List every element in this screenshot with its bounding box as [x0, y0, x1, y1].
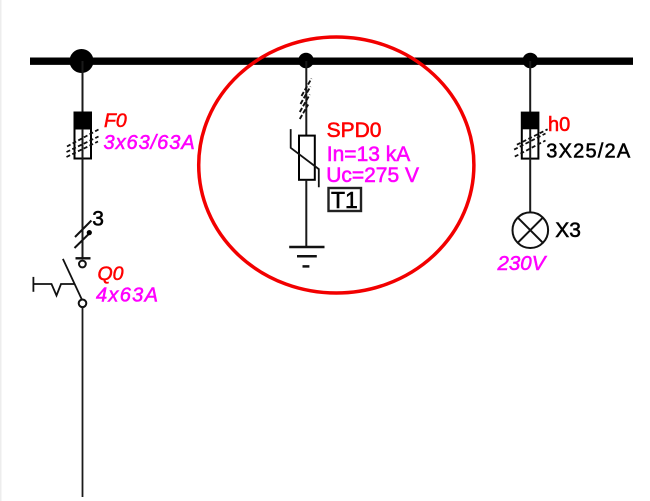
svg-text:Uc=275 V: Uc=275 V: [326, 164, 419, 187]
switch Q0 fixed contact bar: [76, 257, 91, 259]
node right junction: [523, 53, 539, 69]
disconnect slash lower: [75, 233, 90, 248]
ground bar 3: [303, 265, 310, 268]
busbar: [30, 58, 633, 65]
ground bar 1: [289, 246, 324, 249]
svg-text:F0: F0: [104, 110, 127, 132]
svg-text:3X25/2A: 3X25/2A: [546, 141, 631, 163]
svg-text:3x63/63A: 3x63/63A: [104, 132, 196, 154]
T1 frame box: [329, 188, 362, 211]
node left junction: [70, 49, 94, 73]
svg-text:h0: h0: [548, 114, 570, 136]
lamp X3: [513, 212, 549, 248]
disconnect dot: [87, 230, 92, 235]
fuse F0 hatch marks: [67, 130, 99, 158]
disconnect slash upper: [75, 221, 91, 238]
svg-text:X3: X3: [555, 219, 581, 242]
switch Q0 upper pivot circle: [79, 261, 86, 268]
highlight ellipse: [199, 37, 474, 293]
fuse h0 hatch marks: [514, 129, 548, 156]
wire Q0 to feeder bottom: [82, 307, 84, 497]
svg-text:SPD0: SPD0: [327, 119, 382, 142]
svg-text:3: 3: [92, 207, 104, 230]
fuse F0 body: [75, 113, 92, 159]
switch Q0 drive handle: [33, 277, 74, 296]
wire fuse h0 to lamp X3: [529, 159, 531, 213]
SPD0 hatch marks: [300, 79, 312, 120]
wire fuse F0 to disconnect: [82, 159, 84, 259]
left window edge: [0, 0, 2, 501]
wire SPD0 to ground: [305, 180, 307, 247]
switch Q0 lower contact circle: [79, 300, 87, 308]
svg-text:4x63A: 4x63A: [96, 284, 159, 306]
wire bus to SPD0: [305, 61, 307, 136]
switch Q0 blade: [63, 259, 82, 300]
svg-text:230V: 230V: [497, 252, 548, 275]
wire bus to fuse F0: [82, 61, 84, 158]
wire bus to fuse h0: [529, 61, 531, 158]
node middle junction: [298, 53, 314, 69]
fuse h0 body: [522, 113, 539, 159]
ground bar 2: [297, 255, 317, 258]
svg-text:In=13 kA: In=13 kA: [327, 143, 410, 166]
svg-text:T1: T1: [331, 187, 358, 213]
varistor SPD0 strike-through: [291, 129, 319, 187]
varistor SPD0 body: [299, 136, 315, 180]
svg-text:Q0: Q0: [98, 263, 124, 285]
